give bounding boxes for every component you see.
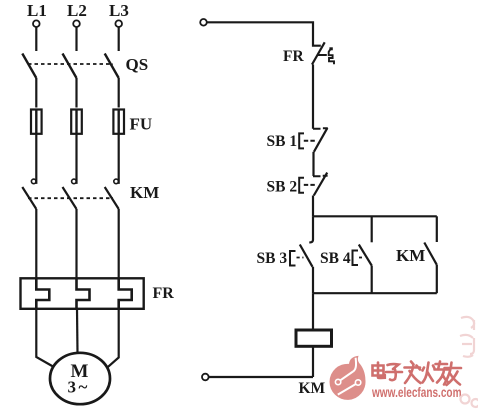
svg-text:SB 1: SB 1 — [267, 133, 298, 150]
svg-text:SB 4: SB 4 — [320, 250, 351, 267]
svg-text:SB 2: SB 2 — [267, 179, 298, 196]
svg-text:KM: KM — [299, 380, 326, 397]
svg-text:QS: QS — [126, 55, 149, 74]
svg-text:L2: L2 — [67, 1, 87, 20]
svg-text:L3: L3 — [109, 1, 129, 20]
svg-text:L1: L1 — [27, 1, 47, 20]
svg-text:FR: FR — [153, 285, 175, 302]
svg-text:FR: FR — [283, 48, 304, 65]
svg-text:KM: KM — [396, 246, 425, 265]
svg-text:KM: KM — [130, 183, 159, 202]
svg-text:3~: 3~ — [68, 378, 90, 397]
svg-text:FU: FU — [130, 115, 153, 134]
svg-text:SB 3: SB 3 — [257, 250, 288, 267]
svg-text:www.elecfans.com: www.elecfans.com — [371, 385, 461, 400]
